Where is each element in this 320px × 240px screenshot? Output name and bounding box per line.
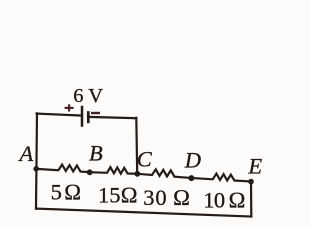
svg-text:30 Ω: 30 Ω <box>143 185 191 210</box>
svg-text:C: C <box>137 147 153 172</box>
svg-text:15Ω: 15Ω <box>98 183 138 208</box>
svg-text:A: A <box>18 141 34 166</box>
svg-text:B: B <box>89 141 103 166</box>
svg-text:10 Ω: 10 Ω <box>203 187 245 212</box>
svg-text:E: E <box>247 154 262 179</box>
svg-text:D: D <box>184 148 201 173</box>
svg-text:5Ω: 5Ω <box>51 179 84 204</box>
svg-text:6 V: 6 V <box>73 85 103 107</box>
